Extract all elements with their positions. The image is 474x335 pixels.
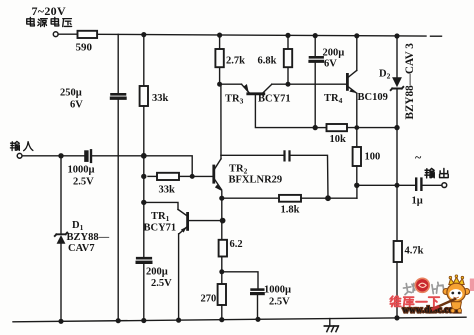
label 电源电压 bbox=[27, 17, 72, 26]
diode D2 BZY88-CAV3 zener bbox=[391, 34, 404, 128]
watermark logo dzsc bbox=[390, 275, 474, 315]
resistor 4.7k bbox=[394, 241, 402, 318]
wire TR1 collector bbox=[144, 202, 178, 209]
svg-text:6V: 6V bbox=[324, 59, 337, 70]
junction rail/33k bbox=[142, 33, 146, 37]
resistor 6.2 bbox=[219, 240, 227, 284]
svg-text:BZY88—: BZY88— bbox=[67, 232, 110, 243]
junction TR4 emitter / 10k wire bbox=[355, 126, 358, 129]
wire 1u to output terminal bbox=[423, 184, 442, 186]
svg-text:250µ: 250µ bbox=[60, 88, 82, 99]
wire D1 branch bbox=[60, 156, 62, 234]
wire TR2 emitter node bbox=[221, 191, 223, 198]
svg-text:BFXLNR29: BFXLNR29 bbox=[229, 175, 283, 186]
wire input to C1000u bbox=[22, 155, 84, 157]
svg-text:33k: 33k bbox=[159, 185, 176, 196]
junction rail/TR4 collector bbox=[355, 34, 359, 38]
junction rail/200u-6V bbox=[313, 34, 317, 38]
junction input/D1 bbox=[59, 154, 63, 158]
ground symbol bbox=[324, 319, 338, 332]
capacitor feedback bbox=[221, 151, 328, 198]
svg-text:BZY88—CAV 3: BZY88—CAV 3 bbox=[404, 43, 416, 120]
svg-text:4.7k: 4.7k bbox=[405, 246, 424, 257]
svg-text:BCY71: BCY71 bbox=[144, 223, 177, 234]
wire terminal to R590 bbox=[58, 33, 77, 35]
svg-text:~: ~ bbox=[415, 150, 422, 164]
transistor TR4 BC109 bbox=[347, 70, 357, 93]
logo red badge bbox=[415, 278, 429, 292]
wire rail to 200u 6V bbox=[314, 36, 316, 56]
junction rail/6.8k bbox=[286, 34, 290, 38]
junction TR2 emitter / 1.8k bbox=[220, 196, 224, 200]
svg-text:2.5V: 2.5V bbox=[73, 177, 94, 188]
wire TR3 collector to 6.8k node bbox=[272, 83, 288, 85]
svg-text:2.7k: 2.7k bbox=[226, 56, 245, 67]
capacitor 250u 6V bbox=[112, 94, 126, 98]
junction ground/D1 bbox=[59, 319, 63, 323]
diode D1 BZY88-CAV7 zener bbox=[55, 233, 67, 244]
junction 200u/10k wire bbox=[313, 126, 317, 130]
junction TR3 emitter node bbox=[218, 82, 222, 86]
junction rail/2.7k bbox=[218, 33, 222, 37]
label 输出 (output) bbox=[425, 168, 448, 178]
wire TR4 collector to rail bbox=[356, 36, 358, 71]
wire branch to 1000u 2.5V bbox=[222, 272, 258, 288]
transistor TR2 BFXLNR29 bbox=[214, 159, 223, 191]
capacitor 1u output bbox=[416, 179, 421, 190]
node rail/250u branch bbox=[117, 34, 119, 93]
junction output node bbox=[355, 183, 359, 187]
wire TR1 emitter to ground rail bbox=[178, 234, 180, 320]
svg-text:270: 270 bbox=[201, 294, 217, 305]
label 输入 (input) bbox=[10, 141, 32, 150]
svg-text:6.2: 6.2 bbox=[230, 239, 243, 250]
resistor 6.8k bbox=[284, 35, 292, 84]
input terminal bbox=[17, 153, 22, 158]
svg-text:200µ: 200µ bbox=[323, 48, 345, 59]
capacitor 1000u 2.5V emitter bbox=[252, 290, 264, 320]
svg-text:1.8k: 1.8k bbox=[281, 205, 300, 216]
svg-text:6V: 6V bbox=[70, 100, 83, 111]
junction feedback cap / 1.8k wire bbox=[326, 196, 330, 200]
junction TR1 collector / 33k line bbox=[142, 200, 146, 204]
svg-text:33k: 33k bbox=[152, 93, 169, 104]
junction ground/250u bbox=[116, 319, 120, 323]
transistor TR1 BCY71 bbox=[178, 209, 223, 233]
transistor TR3 BCY71 bbox=[220, 84, 272, 94]
output terminal bbox=[442, 183, 447, 188]
junction D2 line / output wire bbox=[395, 184, 399, 188]
svg-text:1000µ: 1000µ bbox=[264, 285, 291, 296]
junction input node / 33k line bbox=[142, 154, 146, 158]
wire TR2 collector to TR3 emitter node bbox=[220, 84, 222, 159]
svg-text:CAV7: CAV7 bbox=[68, 243, 95, 254]
junction D2 / 10k wire bbox=[395, 126, 399, 130]
logo right edge sliver bbox=[470, 279, 474, 292]
wire 250u to ground rail bbox=[117, 100, 119, 321]
wire D2 to 4.7k bbox=[396, 128, 398, 241]
svg-text:BCY71: BCY71 bbox=[258, 94, 291, 105]
svg-text:6.8k: 6.8k bbox=[258, 56, 277, 67]
logo red text 维库一下 bbox=[390, 296, 439, 306]
resistor 10k bbox=[315, 124, 397, 131]
resistor 100 bbox=[353, 147, 361, 185]
junction ground/270 bbox=[220, 318, 224, 322]
wire V+ rail bbox=[97, 34, 441, 36]
capacitor 200u 6V bbox=[310, 57, 323, 61]
wire 200u 6V to 10k node bbox=[314, 63, 316, 128]
power terminal bbox=[53, 32, 58, 37]
wire D1 to ground rail bbox=[60, 244, 62, 321]
junction 33k-horizontal right / TR2 base bbox=[190, 175, 194, 179]
logo grey text 找芯片 bbox=[403, 282, 444, 295]
wire TR2 emitter chain to 6.2 bbox=[221, 198, 223, 240]
svg-text:200µ: 200µ bbox=[146, 267, 168, 278]
resistor 2.7k bbox=[215, 35, 223, 84]
svg-text:10k: 10k bbox=[330, 134, 347, 145]
junction ground/4.7k bbox=[395, 316, 399, 320]
resistor 1.8k bbox=[279, 185, 357, 201]
svg-text:2.5V: 2.5V bbox=[269, 297, 290, 308]
junction 33k-horizontal left bbox=[142, 174, 146, 178]
svg-text:1000µ: 1000µ bbox=[68, 165, 95, 176]
svg-text:590: 590 bbox=[76, 42, 93, 54]
resistor 590 bbox=[78, 31, 98, 38]
svg-text:2.5V: 2.5V bbox=[151, 278, 172, 289]
junction ground/1000u bbox=[256, 317, 260, 321]
svg-text:BC109: BC109 bbox=[358, 92, 388, 103]
svg-text:100: 100 bbox=[365, 152, 381, 163]
junction ground/200u bbox=[142, 319, 146, 323]
resistor 33k upper bbox=[140, 86, 148, 106]
junction ground/TR1 emitter bbox=[177, 318, 181, 322]
wire TR3 collector to TR4 base bbox=[288, 83, 346, 85]
wire 33k to input node bbox=[143, 106, 145, 256]
wire TR4 emitter down bbox=[356, 93, 358, 147]
wire 1.8k feedback bbox=[222, 197, 279, 199]
resistor 270 bbox=[218, 284, 226, 320]
wire rail to 33k bbox=[143, 35, 145, 86]
resistor 33k horizontal bbox=[148, 173, 192, 180]
ground rail bbox=[13, 317, 466, 322]
wire 200u to ground rail bbox=[143, 264, 145, 321]
junction 6.8k bottom bbox=[286, 82, 290, 86]
junction 6.2 / 1000u branch bbox=[220, 270, 224, 274]
logo mascot bbox=[433, 275, 470, 313]
wire C1000u to TR2 base corner bbox=[92, 156, 192, 177]
wire to TR2 base bbox=[192, 175, 212, 177]
wire output bbox=[357, 184, 415, 186]
junction TR1 base bbox=[220, 218, 224, 222]
capacitor 200u 2.5V bbox=[137, 258, 151, 262]
svg-text:1µ: 1µ bbox=[412, 196, 423, 207]
capacitor 1000u 2.5V input bbox=[84, 150, 91, 162]
svg-text:7~20V: 7~20V bbox=[32, 4, 66, 18]
wire TR3 base bbox=[255, 95, 315, 128]
